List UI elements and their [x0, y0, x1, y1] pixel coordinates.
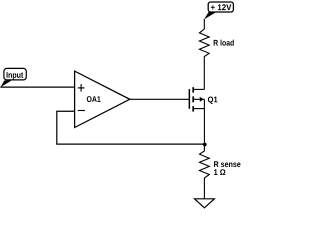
node Input label: [1, 68, 27, 87]
op-amp OA1: [75, 71, 130, 127]
wire op-amp output to gate: [130, 98, 189, 100]
ground: [195, 199, 215, 208]
node junction dot: [203, 143, 207, 147]
node +12V label: [204, 2, 233, 19]
transistor Q1: [189, 87, 217, 144]
wire Input to op-amp + input: [0, 86, 74, 88]
resistor R sense: [200, 144, 241, 199]
resistor R load: [199, 19, 233, 89]
wire feedback from op-amp - input to junction: [57, 111, 205, 144]
